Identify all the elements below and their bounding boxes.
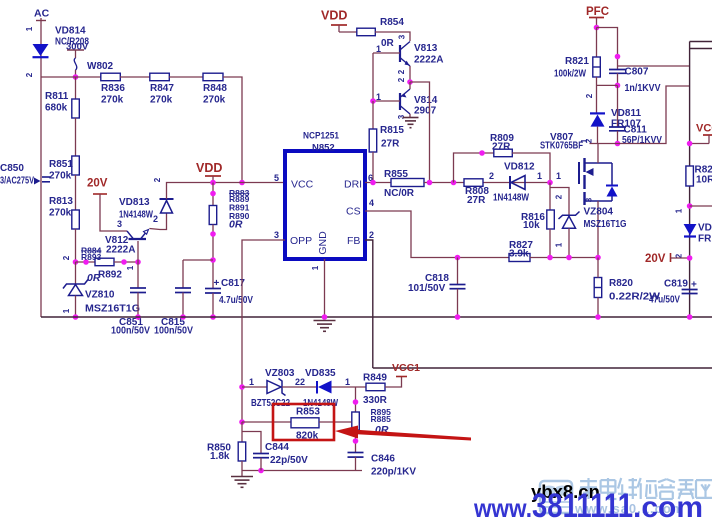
- svg-text:22p/50V: 22p/50V: [270, 455, 308, 466]
- wire VDD to R854: [339, 31, 357, 33]
- pin 3 of V813: [398, 34, 407, 39]
- label V807: [550, 132, 574, 143]
- pin name FB: [347, 235, 360, 247]
- wire IC GND pin: [324, 259, 326, 317]
- wire V814 emitter up: [409, 82, 411, 89]
- junction on R809 lead: [479, 150, 485, 156]
- value 270k of R836: [101, 95, 124, 106]
- pin name OPP: [290, 235, 312, 247]
- wire R849 to VCC1: [385, 377, 402, 388]
- resistor R811: [72, 99, 80, 118]
- svg-text:W802: W802: [87, 61, 114, 72]
- wire bottom return: [242, 470, 362, 472]
- resistor R836: [101, 73, 121, 81]
- value 101/50V of C818: [408, 283, 446, 294]
- svg-text:2: 2: [489, 171, 494, 181]
- wire VCC tap: [690, 143, 709, 145]
- wire C815 top lead: [182, 260, 184, 288]
- svg-text:1N4148W: 1N4148W: [493, 193, 529, 204]
- junction DRI output: [427, 180, 433, 186]
- svg-text:V814: V814: [414, 95, 438, 106]
- pin 1 of VZ810: [62, 308, 71, 313]
- svg-text:1: 1: [249, 377, 254, 387]
- wire R851 to R813: [75, 175, 77, 210]
- resistor R851: [72, 156, 80, 175]
- svg-text:2: 2: [555, 194, 564, 199]
- label R893: [81, 252, 102, 262]
- capacitor C851: [130, 288, 146, 293]
- resistor R853: [291, 418, 319, 428]
- junction C851 ground: [135, 314, 141, 320]
- pin number 6: [368, 173, 373, 183]
- wire V812 emitter to VD813: [150, 214, 167, 230]
- wire OPP from IC: [242, 240, 285, 422]
- svg-text:NC/0R: NC/0R: [384, 188, 415, 199]
- pin 1 of VD814: [25, 26, 34, 31]
- wire output V813/V814 to DRI row: [410, 82, 430, 183]
- resistor R829: [686, 166, 694, 186]
- pin name CS: [346, 206, 361, 218]
- svg-text:R811: R811: [45, 91, 69, 102]
- resistor R850: [238, 442, 246, 461]
- label R892: [98, 270, 122, 281]
- svg-text:DRI: DRI: [344, 179, 362, 191]
- label C851: [119, 317, 143, 328]
- junction C819 ground: [687, 314, 693, 320]
- svg-text:27R: 27R: [492, 142, 511, 153]
- junction R809 tap: [451, 180, 457, 186]
- junction C851/V812 node: [135, 259, 141, 265]
- label C846: [371, 454, 395, 465]
- resistor R848: [203, 73, 223, 81]
- wire right column: [689, 42, 691, 318]
- capacitor C844: [253, 454, 269, 458]
- svg-text:VCC1: VCC1: [392, 362, 420, 374]
- svg-text:VD813: VD813: [119, 197, 150, 208]
- label VD813: [119, 197, 150, 208]
- label R816: [521, 212, 545, 223]
- wire VD813 to VDD row: [167, 183, 214, 200]
- svg-text:VD811: VD811: [611, 108, 641, 119]
- resistor R815: [369, 129, 377, 152]
- wire C818 top lead: [457, 258, 459, 285]
- pin number 2 FB: [369, 230, 374, 240]
- resistor R847: [150, 73, 170, 81]
- label V814: [414, 95, 438, 106]
- resistor R883: [209, 206, 217, 225]
- junction VDD row: [210, 180, 216, 186]
- wire C851 top lead: [137, 262, 139, 288]
- label VZ804: [584, 207, 614, 218]
- watermark www.3811111.com: [473, 487, 703, 522]
- value 3/AC275V of C850: [0, 176, 34, 187]
- pin 1 of V814: [376, 92, 381, 102]
- value BZT52C22 of VZ803: [251, 398, 290, 409]
- svg-text:+: +: [214, 278, 220, 289]
- svg-text:VD814: VD814: [55, 26, 86, 37]
- label R813: [49, 196, 73, 207]
- wire drain net: [590, 86, 690, 144]
- svg-text:2: 2: [153, 214, 158, 224]
- svg-text:1: 1: [556, 171, 561, 181]
- wire R850 top lead: [241, 422, 243, 442]
- label R829: [695, 165, 712, 176]
- svg-text:R820: R820: [609, 278, 633, 289]
- svg-text:1: 1: [25, 26, 34, 31]
- wire R850 to ground: [241, 461, 243, 476]
- wire ground row: [41, 316, 712, 318]
- junction R895 bottom: [353, 438, 359, 444]
- wire R892 to C851 node: [114, 261, 138, 263]
- junction W802/R811 node: [73, 74, 79, 80]
- value 1N4148W of VD813: [119, 210, 153, 221]
- svg-text:R892: R892: [98, 270, 122, 281]
- pin 2 of V814: [397, 77, 406, 82]
- junction R892 left: [83, 259, 89, 265]
- zener diode VZ810: [63, 262, 88, 317]
- svg-text:1: 1: [580, 138, 589, 143]
- svg-text:OPP: OPP: [290, 235, 312, 247]
- svg-text:3: 3: [585, 197, 594, 202]
- value 10k of R816: [523, 220, 540, 231]
- junction C811/drain: [615, 141, 621, 147]
- svg-text:1.8k: 1.8k: [210, 451, 230, 462]
- svg-text:20V: 20V: [645, 253, 666, 265]
- svg-text:VCC: VCC: [696, 123, 712, 135]
- pin 2 of V813: [397, 69, 406, 74]
- wire V807 source down: [597, 201, 599, 258]
- label R885: [371, 414, 392, 424]
- diode VD812: [510, 176, 525, 190]
- wire V807 drain up: [597, 144, 599, 164]
- pin 1 of VZ803: [249, 377, 254, 387]
- pin name VCC: [291, 179, 314, 191]
- resistor R820: [594, 278, 602, 298]
- wire R827 to source node: [530, 257, 598, 259]
- svg-text:2222A: 2222A: [106, 245, 135, 256]
- svg-text:27R: 27R: [381, 139, 400, 150]
- wire R883 to C817: [212, 225, 214, 289]
- svg-text:10R: 10R: [696, 175, 712, 186]
- junction R820 ground: [595, 314, 601, 320]
- value 300V of W802: [66, 42, 89, 53]
- svg-text:0R: 0R: [87, 272, 101, 284]
- svg-text:1: 1: [675, 208, 684, 213]
- junction R815/DRI: [370, 180, 376, 186]
- pin 2 of VD814: [25, 72, 34, 77]
- value 270k of R813: [49, 208, 72, 219]
- wire AC row to R836: [41, 76, 101, 78]
- wire C807 tap to R821 line: [597, 84, 618, 86]
- junction PFC node: [594, 25, 600, 31]
- label R820: [609, 278, 633, 289]
- label C844: [265, 442, 289, 453]
- svg-text:R885: R885: [371, 414, 392, 424]
- value 27R of R808: [467, 195, 486, 206]
- power label VCC: [696, 123, 712, 135]
- pin number 5: [274, 173, 279, 183]
- svg-text:VD812: VD812: [504, 162, 535, 173]
- value 270k of R851: [49, 171, 72, 182]
- resistor R808: [464, 179, 483, 187]
- svg-text:PFC: PFC: [586, 6, 609, 18]
- wire R820 bottom lead: [597, 298, 599, 318]
- pin number 1 GND: [311, 265, 320, 270]
- power bar VDD mid: [205, 176, 221, 183]
- wire bases to R815: [372, 101, 374, 129]
- label R855: [384, 169, 408, 180]
- wire C846 bottom lead: [355, 457, 357, 470]
- junction R827/R816: [547, 255, 553, 261]
- capacitor C850 terminal: [34, 177, 50, 185]
- node label AC: [34, 8, 50, 20]
- junction R895 top: [353, 399, 359, 405]
- svg-text:1: 1: [62, 308, 71, 313]
- svg-text:R853: R853: [296, 407, 320, 418]
- junction V814 base/R815: [370, 98, 376, 104]
- svg-text:VDD: VDD: [321, 9, 347, 23]
- svg-text:C850: C850: [0, 163, 24, 174]
- wire R853 to R895: [319, 421, 352, 423]
- wire R895 branch: [355, 387, 357, 412]
- svg-text:www.3811111.com: www.3811111.com: [473, 487, 703, 522]
- svg-text:300V: 300V: [66, 42, 89, 53]
- wire VDD row to IC VCC: [213, 182, 285, 184]
- svg-text:MSZ16T1G: MSZ16T1G: [85, 304, 140, 315]
- svg-text:5: 5: [274, 173, 279, 183]
- resistor R809: [494, 149, 513, 157]
- svg-text:56P/1KVV: 56P/1KVV: [622, 135, 662, 146]
- wire R855 to gate node: [424, 182, 550, 184]
- svg-text:AC: AC: [34, 8, 50, 20]
- wire R809 branch up: [454, 153, 495, 183]
- plus of C817: [214, 278, 220, 289]
- resistor R892: [95, 258, 114, 266]
- wire DRI from IC: [365, 182, 391, 184]
- wire 20V tap: [671, 257, 690, 259]
- wire PFC to R821: [596, 28, 598, 58]
- wire node to VZ803: [242, 386, 267, 388]
- label R849: [363, 373, 387, 384]
- value 0R of R895: [375, 424, 389, 436]
- resistor R821: [593, 57, 601, 77]
- svg-text:10k: 10k: [523, 220, 540, 231]
- spark gap W802 300V: [67, 50, 84, 77]
- diode VD814: [33, 44, 49, 57]
- svg-text:VZ804: VZ804: [584, 207, 614, 218]
- diode VD813: [160, 199, 174, 213]
- junction R813/VZ810 node pin2: [73, 259, 79, 265]
- pin 1 of VZ804: [555, 242, 564, 247]
- label V812: [105, 235, 129, 246]
- pin 3 of V807: [585, 197, 594, 202]
- resistor R855: [391, 179, 424, 187]
- wire base tie vertical: [372, 53, 374, 101]
- power label 20V left: [87, 178, 108, 190]
- svg-text:C811: C811: [624, 125, 648, 136]
- value 100n/50V of C815: [154, 326, 193, 337]
- junction C817 ground: [210, 314, 216, 320]
- capacitor C846: [348, 453, 364, 458]
- label C818: [425, 273, 449, 284]
- svg-text:270k: 270k: [101, 95, 124, 106]
- svg-text:3/AC275V: 3/AC275V: [0, 176, 34, 187]
- resistor R895: [352, 412, 360, 430]
- svg-text:3: 3: [274, 230, 279, 240]
- svg-text:CS: CS: [346, 206, 361, 218]
- wire R853 row: [242, 421, 291, 423]
- svg-text:2: 2: [25, 72, 34, 77]
- capacitor C815: [175, 288, 191, 293]
- wire C811 bottom lead: [617, 131, 619, 144]
- svg-text:4: 4: [369, 198, 374, 208]
- value STK0765BF of V807: [540, 141, 583, 152]
- junction R892 right: [121, 259, 127, 265]
- wire FB row to edge: [373, 367, 712, 369]
- svg-text:3: 3: [117, 219, 122, 229]
- ground symbol IC: [314, 321, 336, 332]
- pin 1 of V813: [376, 44, 381, 54]
- label R847: [150, 83, 174, 94]
- svg-text:330R: 330R: [363, 395, 388, 406]
- svg-text:100n/50V: 100n/50V: [111, 326, 150, 337]
- junction R829 bottom: [687, 203, 693, 209]
- capacitor C818: [450, 285, 466, 289]
- power label PFC: [586, 6, 609, 18]
- label C815: [161, 317, 185, 328]
- junction C818 ground: [455, 314, 461, 320]
- resistor R854: [357, 28, 376, 36]
- label C811: [624, 125, 648, 136]
- value 1n/1KVV of C807: [625, 83, 661, 94]
- pin 2 pair VZ803/VD835: [295, 377, 305, 387]
- svg-text:VZ810: VZ810: [85, 290, 115, 301]
- value 1.8k of R850: [210, 451, 230, 462]
- svg-text:1: 1: [311, 265, 320, 270]
- power label 20V right: [645, 253, 666, 265]
- wire W802 node to R811: [75, 77, 77, 100]
- junction C815/C817 node: [210, 257, 216, 263]
- label R851: [49, 159, 73, 170]
- wire VD835 to R849: [332, 386, 367, 388]
- label VD810: [698, 223, 712, 234]
- pin 2 of VD812: [489, 171, 494, 181]
- label VD811: [611, 108, 641, 119]
- value 27R of R809: [492, 142, 511, 153]
- value 0R of R892: [87, 272, 101, 284]
- svg-text:1: 1: [345, 377, 350, 387]
- label NCP1251: [303, 131, 340, 142]
- svg-text:270k: 270k: [49, 171, 72, 182]
- label VZ810: [85, 290, 115, 301]
- wire stub to edge 1: [690, 41, 712, 43]
- svg-text:1N4148W: 1N4148W: [119, 210, 153, 221]
- wire R847 to R848: [169, 76, 203, 78]
- svg-text:0R: 0R: [229, 219, 243, 231]
- svg-text:47u/50V: 47u/50V: [649, 295, 680, 306]
- junction 20V tap: [687, 255, 693, 261]
- label R848: [203, 83, 227, 94]
- wire C811 top lead: [617, 85, 619, 127]
- capacitor C819: [682, 290, 698, 294]
- capacitor C811: [609, 127, 626, 131]
- svg-text:VDD: VDD: [196, 161, 222, 175]
- watermark ybx8.cn: [531, 481, 600, 502]
- wire R820 top lead: [597, 258, 599, 278]
- value 100n/50V of C851: [111, 326, 150, 337]
- svg-text:FR10: FR10: [698, 234, 712, 245]
- label R850: [207, 443, 231, 454]
- label R895: [371, 407, 392, 417]
- svg-text:VZ803: VZ803: [265, 368, 295, 379]
- wire C815 branch: [183, 259, 213, 261]
- pin 1 of VD812: [537, 171, 542, 181]
- svg-text:R851: R851: [49, 159, 73, 170]
- value 22p/50V of C844: [270, 455, 308, 466]
- value NC/0R of R855: [384, 188, 415, 199]
- label W802: [87, 61, 114, 72]
- watermark chinese text: [579, 478, 712, 499]
- svg-text:2: 2: [369, 230, 374, 240]
- value FR107 of VD810: [698, 234, 712, 245]
- value 4.7u/50V of C817: [219, 295, 253, 306]
- svg-text:2: 2: [62, 255, 71, 260]
- value 0R of R883: [229, 219, 243, 231]
- value 270k of R847: [150, 95, 173, 106]
- svg-text:22: 22: [295, 377, 305, 387]
- label R809: [490, 133, 514, 144]
- svg-text:2: 2: [153, 177, 162, 182]
- svg-text:1: 1: [555, 242, 564, 247]
- wire C818 bottom lead: [457, 289, 459, 317]
- svg-text:100k/2W: 100k/2W: [554, 69, 586, 80]
- wire AC tick: [36, 20, 46, 22]
- op-amp U1 IC N852 NCP1251 box: [285, 151, 365, 259]
- wire AC vertical: [40, 18, 42, 317]
- label VD812: [504, 162, 535, 173]
- wire VZ804 branch: [550, 188, 569, 216]
- transistor V813: [400, 42, 410, 67]
- value 3.9k of R827: [509, 249, 529, 260]
- power bar 20V left: [93, 193, 107, 195]
- svg-text:270k: 270k: [49, 208, 72, 219]
- svg-text:R855: R855: [384, 169, 408, 180]
- wire R813 to VZ810 node: [75, 229, 77, 262]
- label R821: [565, 56, 589, 67]
- svg-text:270k: 270k: [203, 95, 226, 106]
- svg-text:C819: C819: [664, 279, 688, 290]
- wire R821 to VD811: [596, 77, 598, 113]
- value 0R of R854: [381, 38, 395, 49]
- pin 1 of VD835: [345, 377, 350, 387]
- svg-text:R854: R854: [380, 17, 404, 28]
- pin 2 of V812: [153, 214, 158, 224]
- svg-text:R813: R813: [49, 196, 73, 207]
- value 330R of R849: [363, 395, 388, 406]
- label C817: [221, 278, 245, 289]
- pin 2 of VD810: [675, 253, 684, 258]
- svg-text:1n/1KVV: 1n/1KVV: [625, 83, 661, 94]
- resistor R827: [509, 254, 530, 262]
- label R853: [296, 407, 320, 418]
- power label VCC1: [392, 362, 420, 374]
- wire C807 to C811: [617, 73, 619, 85]
- svg-text:N852: N852: [312, 143, 335, 154]
- label R884 (struck): [81, 246, 102, 256]
- svg-text:3: 3: [398, 34, 407, 39]
- wire V812 base down: [137, 241, 139, 262]
- label VD814: [55, 26, 86, 37]
